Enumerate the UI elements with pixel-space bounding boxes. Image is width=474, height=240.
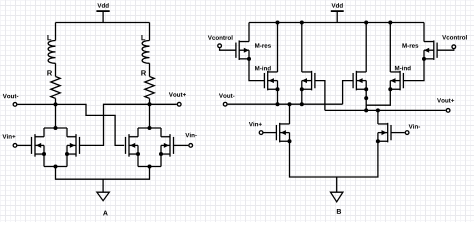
transistor Q2 (A left inner): gate bar [79, 137, 81, 154]
transistor Q1 (A left outer): arrow [36, 143, 41, 148]
M-ind right: drain stub [390, 71, 400, 73]
terminal Vout+ (A) [177, 102, 181, 106]
M-res left: gate bar [235, 43, 237, 58]
wire: Vin+ transistor drain up to rail [289, 104, 291, 124]
Vin- transistor (B): bulk/source arrow line [378, 132, 388, 134]
wire: left pair drain bar (A) [44, 127, 67, 129]
transistor Q3 (A right inner): channel bar [128, 134, 130, 157]
transistor Q4 (A right outer): channel bar [169, 134, 171, 157]
label R (right) [141, 70, 146, 75]
wire: A right branch top [149, 23, 151, 41]
M-res left: drain stub [239, 41, 249, 43]
M-res left: source junction dot [247, 57, 251, 61]
transistor Q1 (A left outer): channel bar [34, 134, 36, 157]
transistor Q3 (A right inner): source stub [129, 153, 138, 155]
wire: M-ind right gate to M-res right source [403, 59, 424, 81]
inductor L (left) [48, 41, 55, 64]
Vdd supply symbol (A) [96, 10, 109, 12]
node: M-ind left source on rail [276, 102, 280, 106]
resistor R (left) [51, 77, 60, 99]
label A [103, 211, 108, 216]
Vin- transistor (B): source junction dot [376, 139, 380, 143]
terminal Vin+ (B) [259, 131, 263, 135]
wire: Vin+ gate lead (B) [264, 132, 277, 134]
Vin+ transistor (B): source stub [280, 140, 290, 142]
label Vcontrol (left) [208, 35, 233, 40]
Vin+ transistor (B): arrow [281, 130, 286, 135]
M-res right: source junction dot [422, 57, 426, 61]
transistor Q3 (A right inner): drain stub [129, 136, 138, 138]
label Vout- (A) [3, 94, 19, 98]
label M-res (right) [402, 43, 418, 47]
Vdd supply symbol (B) [331, 10, 344, 12]
node: Vin+ drain on Vout- rail [288, 102, 292, 106]
label Vout+ (A) [169, 92, 186, 96]
transistor Q4 (A right outer): gate bar [173, 137, 175, 154]
ML cross-coupled: source stub [302, 88, 312, 90]
wire: Vout+ rail to cross-coupling (A) [80, 104, 177, 145]
transistor Q3 (A right inner): bulk/source arrow line [129, 144, 138, 146]
node: MR source mid junction [364, 96, 368, 100]
wire: Vin+ gate lead (A) [17, 144, 31, 146]
node: ML source on rail [300, 102, 304, 106]
wire: left pair source bar (A) [44, 166, 67, 168]
wire: Vcontrol right to gate [437, 49, 454, 50]
node: rail taps (B) [276, 21, 280, 25]
wire: Vin- transistor drain up to rail [377, 110, 379, 124]
wire: A top rail [56, 22, 150, 24]
wire: M-ind right source to Vout+ side [366, 89, 390, 105]
wire: MR drain to rail [365, 23, 367, 72]
wire: A tail connections [56, 167, 150, 180]
MR cross-coupled: gate bar [352, 73, 354, 88]
Vin+ transistor (B): channel bar [279, 123, 281, 143]
terminal Vin+ (A) [13, 144, 17, 148]
label R (left) [47, 70, 52, 75]
wire: ML drain to rail [301, 23, 303, 72]
wire: rail down to M-res left drain [248, 23, 250, 42]
Vin- transistor (B): gate bar [390, 125, 392, 140]
terminal Vcontrol (left) [218, 44, 222, 48]
wire: ML source to Vout- rail [301, 89, 303, 104]
transistor Q1 (A left outer): drain stub [35, 136, 44, 138]
wire resistor to rail (right) [149, 98, 151, 104]
transistor Q1 (A left outer): source junction dot [42, 152, 46, 156]
label Vin- (B) [409, 124, 420, 128]
MR cross-coupled: arrow [357, 78, 362, 83]
transistor Q2 (A left inner): arrow [70, 143, 75, 148]
transistor Q4 (A right outer): bulk/source arrow line [161, 144, 170, 146]
node: right pair source junction [148, 165, 152, 169]
transistor Q4 (A right outer): source junction dot [159, 152, 163, 156]
transistor Q3 (A right inner): arrow [130, 143, 135, 148]
wire resistor to rail (left) [55, 98, 57, 104]
M-ind right: channel bar [399, 71, 401, 91]
label Vin+ (A) [2, 134, 15, 138]
wire: MR gate cross wire to Vout- rail [343, 81, 354, 105]
M-res right: source stub [424, 58, 434, 60]
label Vin- (A) [185, 133, 196, 137]
node: resistor/rail junction left (A) [54, 102, 58, 106]
M-ind left: drain stub [268, 71, 278, 73]
Vin- transistor (B): source stub [378, 140, 388, 142]
transistor Q2 (A left inner): drain stub [67, 136, 76, 138]
wire: Vout+ rail (B) [325, 109, 446, 111]
ML cross-coupled: arrow [302, 78, 307, 83]
wire: Vout- rail (B) [228, 103, 343, 105]
node: right pair drain junction [148, 126, 152, 130]
transistor Q1 (A left outer): gate bar [31, 137, 33, 154]
Vin- transistor (B): arrow [382, 130, 387, 135]
transistor Q1 (A left outer): bulk/source arrow line [35, 144, 44, 146]
Vin+ transistor (B): source junction dot [288, 139, 292, 143]
label M-ind (right) [395, 66, 411, 71]
transistor Q4 (A right outer): drain stub [161, 136, 170, 138]
wire: B ground stem [336, 177, 338, 192]
transistor Q1 (A left outer): source stub [35, 153, 44, 155]
Vin- transistor (B): channel bar [387, 123, 389, 143]
M-ind left: source stub [268, 88, 278, 90]
wire: MR source down to Vout+ rail [365, 89, 367, 110]
wire: Vin- gate lead (B) [391, 132, 405, 134]
transistor Q2 (A left inner): bulk/source arrow line [67, 144, 76, 146]
M-res left: arrow [244, 48, 249, 53]
wire: M-ind left drain to rail [277, 23, 279, 72]
terminal Vout+ (B) [446, 109, 450, 113]
wire: left pair drain/source verticals [43, 128, 45, 137]
M-ind left: gate bar [263, 73, 265, 88]
terminal Vout- (A) [13, 103, 17, 107]
M-ind left: channel bar [267, 71, 269, 91]
transistor Q4 (A right outer): source stub [161, 153, 170, 155]
transistor Q2 (A left inner): source junction dot [65, 152, 69, 156]
node: resistor/rail junction right (A) [148, 102, 152, 106]
M-res right: drain stub [424, 41, 434, 43]
wire: rail down to M-res right drain [423, 23, 425, 42]
wire: B tail connections [290, 141, 378, 177]
wire: right pair drain bar (A) [138, 127, 161, 129]
transistor Q3 (A right inner): source junction dot [136, 152, 140, 156]
wire: Vout- down to left pair drains [55, 104, 57, 128]
wire: Vcontrol left to gate [220, 48, 236, 50]
node: left pair source junction [54, 165, 58, 169]
MR cross-coupled: source stub [356, 88, 366, 90]
M-ind right: gate bar [402, 73, 404, 88]
wire: M-ind left source to Vout- rail [277, 89, 279, 104]
wire: Vout- rail to cross-coupling (A) [17, 104, 124, 145]
wire: right pair drain/source verticals [137, 128, 139, 137]
label L (left) [47, 35, 51, 40]
terminal Vin- (B) [405, 131, 409, 135]
label M-ind (left) [255, 66, 271, 71]
ML cross-coupled: drain stub [302, 71, 312, 73]
ML cross-coupled: gate bar [314, 73, 316, 88]
label Vout+ (B) [437, 98, 454, 102]
ground symbol (B) [331, 192, 343, 202]
terminal Vcontrol (right) [452, 45, 456, 49]
Vin+ transistor (B): gate bar [275, 125, 277, 140]
wire between L and R (left) [55, 63, 57, 76]
M-ind right: bulk/source arrow line [390, 80, 400, 82]
transistor Q2 (A left inner): source stub [67, 153, 76, 155]
transistor Q3 (A right inner): gate bar [125, 137, 127, 154]
wire: M-ind right drain to rail [389, 23, 391, 72]
label Vcontrol (right) [442, 35, 467, 40]
ground symbol (A) [97, 192, 109, 201]
M-ind right: source junction dot [388, 87, 392, 91]
wire: A left branch top [55, 23, 57, 41]
MR cross-coupled: bulk/source arrow line [356, 80, 366, 82]
Vdd label (B) [331, 3, 342, 8]
M-ind right: source stub [390, 88, 400, 90]
inductor L (right) [142, 41, 149, 64]
M-ind left: bulk/source arrow line [268, 80, 278, 82]
terminal Vout- (B) [223, 102, 227, 106]
M-res right: channel bar [433, 40, 435, 60]
M-res right: bulk/source arrow line [424, 49, 434, 51]
node: MR source on Vout+ rail [364, 108, 368, 112]
label Vin+ (B) [249, 122, 262, 126]
Vin- transistor (B): drain stub [378, 123, 388, 125]
wire: B top rail [249, 22, 424, 24]
M-res right: gate bar [436, 43, 438, 58]
Vdd label (A) [97, 3, 108, 8]
label M-res (left) [255, 43, 271, 47]
label Vout- (B) [219, 94, 235, 98]
wire: ML gate cross wire to Vout+ rail [315, 81, 325, 111]
wire: right pair source bar (A) [138, 166, 161, 168]
wire between L and R (right) [149, 63, 151, 76]
MR cross-coupled: drain stub [356, 71, 366, 73]
M-res left: source stub [239, 58, 249, 60]
M-res left: channel bar [238, 40, 240, 60]
ML cross-coupled: channel bar [311, 71, 313, 91]
Vin+ transistor (B): drain stub [280, 123, 290, 125]
node: Vin- drain on Vout+ rail [376, 108, 380, 112]
M-ind right: arrow [390, 78, 395, 83]
MR cross-coupled: source junction dot [364, 87, 368, 91]
terminal Vin- (A) [189, 144, 193, 148]
label L (right) [141, 35, 145, 40]
M-ind left: source junction dot [276, 87, 280, 91]
wire: A ground stem [102, 179, 104, 192]
ML cross-coupled: bulk/source arrow line [302, 80, 312, 82]
M-res right: arrow [424, 48, 429, 53]
node: left pair drain junction [54, 126, 58, 130]
wire: M-res left source to M-ind left gate [249, 59, 264, 81]
wire: Vout+ down to right pair drains [149, 104, 151, 128]
transistor Q4 (A right outer): arrow [164, 143, 169, 148]
ML cross-coupled: source junction dot [300, 87, 304, 91]
resistor R (right) [145, 77, 154, 99]
transistor Q2 (A left inner): channel bar [75, 134, 77, 157]
M-res left: bulk/source arrow line [239, 49, 249, 51]
MR cross-coupled: channel bar [355, 71, 357, 91]
Vin+ transistor (B): bulk/source arrow line [280, 132, 290, 134]
wire: Vin- gate lead (A) [174, 144, 189, 146]
label B [337, 209, 341, 214]
M-ind left: arrow [269, 78, 274, 83]
